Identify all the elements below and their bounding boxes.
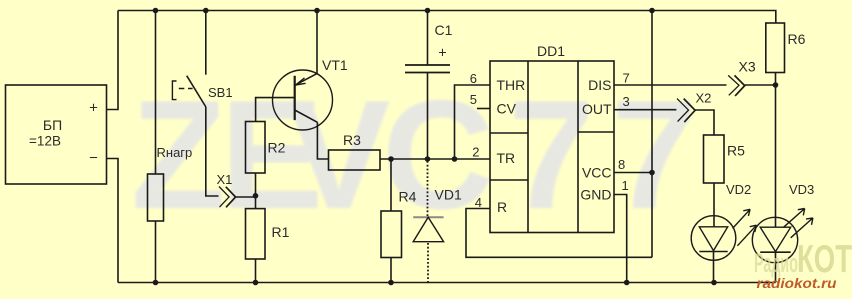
node C1/VD1 [425,156,431,162]
svg-text:THR: THR [497,77,526,93]
wire Rnagr top lead [155,11,157,175]
resistor Rnagr [148,174,164,221]
node A X1/R2/R1 [253,193,259,199]
node VCC pin8 [649,170,655,176]
resistor R3 [329,150,381,170]
wire X3 to node B [745,84,776,86]
svg-text:−: − [89,150,98,167]
svg-text:X2: X2 [696,91,712,106]
svg-text:R3: R3 [343,132,361,148]
svg-text:VD2: VD2 [726,182,751,197]
svg-text:OUT: OUT [582,101,612,117]
wire X1 to node A [236,196,255,198]
wire pin5 CV stub [477,108,490,110]
svg-text:R4: R4 [399,189,417,205]
power supply BP box [6,85,107,184]
node top rail SB1 [203,8,209,14]
wire R3 to TR node [380,158,490,160]
resistor R6 [766,23,785,73]
wire VD1 top dotted [427,161,429,217]
wire BP - terminal to bottom rail [107,159,119,283]
svg-text:7: 7 [623,71,630,86]
wire VT1 emitter to top rail [316,11,318,74]
wire VD1 bottom dotted [427,243,429,283]
wire BP + terminal to top rail [107,11,119,110]
wire R4 bottom lead [390,258,392,283]
svg-text:Rнагр: Rнагр [157,145,193,160]
wire R1 bottom lead [255,259,257,283]
wire VT1 collector to R3 [317,122,328,159]
wire C1 bottom lead [427,73,429,160]
wire Rnagr bottom lead [155,221,157,283]
wire pin7 DIS to X3 [614,84,727,86]
node bottom rail GND [624,280,630,286]
svg-text:VD3: VD3 [789,182,814,197]
connector X2 [677,99,695,123]
wire R4 top lead [390,159,392,211]
node top rail Rnagr [153,8,159,14]
svg-text:DD1: DD1 [537,43,565,59]
wire +12V vertical rail [651,11,653,258]
svg-text:R1: R1 [272,224,290,240]
connector X1 [219,187,236,208]
svg-text:2: 2 [472,145,479,160]
svg-text:4: 4 [475,195,482,210]
wire R2 bottom to node A [255,173,257,209]
svg-text:TR: TR [497,150,516,166]
resistor R4 [381,211,402,258]
wire VD3 bottom lead [775,252,777,283]
node THR/TR [452,156,458,162]
svg-text:=12В: =12В [29,134,61,149]
svg-text:X1: X1 [217,172,233,187]
svg-text:R6: R6 [788,31,806,47]
wire pin1 GND to bottom rail [614,195,627,283]
bottom 0V rail [118,282,776,284]
wire VD2 bottom lead [713,252,715,283]
svg-text:8: 8 [618,157,625,172]
node bottom rail R1 [253,280,259,286]
node B X3/R6/VD3 [773,82,779,88]
svg-text:VCC: VCC [582,165,612,181]
svg-text:КОТ: КОТ [797,238,852,281]
svg-text:6: 6 [470,71,477,86]
svg-text:SB1: SB1 [208,85,233,100]
wire VT1 base to R2 [256,98,294,122]
wire C1 top lead [427,11,429,66]
wire pin8 VCC to rail [614,172,652,174]
node bottom rail R4 [388,280,394,286]
resistor R5 [704,135,725,183]
node R4 top [388,156,394,162]
LED VD2 [691,209,756,260]
svg-text:+: + [438,46,446,62]
resistor R1 [246,209,266,259]
wire SB1 top lead [205,11,207,75]
IC DD1 box [490,61,614,233]
wire R6 bottom to node B [775,73,777,86]
top +12V rail [118,11,776,24]
connector X3 [728,75,745,96]
svg-text:1: 1 [622,178,629,193]
wire node B down to VD3 [775,85,777,227]
node top rail VCC [649,8,655,14]
node bottom rail Rnagr [153,280,159,286]
node top rail C1 [425,8,431,14]
svg-text:R5: R5 [727,143,745,159]
switch SB1 [172,76,206,107]
transistor VT1 [273,70,333,130]
node top rail VT1 [314,8,320,14]
svg-text:C1: C1 [435,22,453,38]
svg-text:3: 3 [623,94,630,109]
svg-text:БП: БП [43,117,62,133]
wire X2 to R5 [695,110,714,135]
svg-text:VT1: VT1 [322,57,348,73]
svg-text:R2: R2 [268,140,286,156]
capacitor C1 [405,65,450,73]
resistor R2 [246,122,266,174]
wire SB1 bottom lead to X1 [206,107,219,196]
node bottom rail VD2 [711,280,717,286]
svg-text:radiokot.ru: radiokot.ru [757,276,838,291]
wire R5 bottom to VD2 [713,183,715,227]
svg-text:VD1: VD1 [435,187,462,203]
svg-text:GND: GND [580,187,611,203]
svg-text:CV: CV [497,101,517,117]
LED VD3 [752,209,813,263]
svg-text:DIS: DIS [588,77,611,93]
svg-text:R: R [497,199,507,215]
wire pin3 OUT to X2 [614,109,676,111]
svg-text:X3: X3 [739,59,756,75]
wire pin6 THR link to TR node [455,85,491,159]
diode VD1 [413,217,443,242]
svg-text:Радио: Радио [754,248,798,278]
svg-text:+: + [89,100,98,117]
svg-text:5: 5 [470,92,477,107]
wire pin4 R to VCC rail [466,209,652,258]
